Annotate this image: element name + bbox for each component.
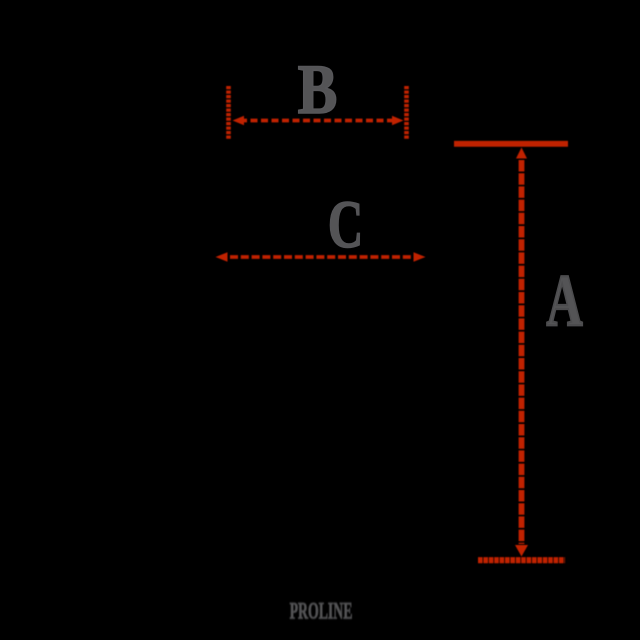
dimension line C xyxy=(230,255,411,259)
dimension line A (vertical) xyxy=(519,160,525,544)
extension tick right (B) xyxy=(404,86,409,140)
svg-text:B: B xyxy=(298,51,338,129)
bottom reference bar (A) xyxy=(478,557,565,563)
svg-text:PROLINE: PROLINE xyxy=(290,599,353,624)
arrowhead A top xyxy=(516,148,527,159)
arrowhead C left xyxy=(216,252,228,262)
top reference bar (A) xyxy=(454,141,568,147)
arrowhead A bottom xyxy=(515,545,528,557)
svg-text:A: A xyxy=(546,260,583,342)
arrowhead B right xyxy=(392,116,404,126)
extension tick left (B) xyxy=(226,86,231,140)
arrowhead B left xyxy=(233,116,245,126)
dimension line B xyxy=(240,119,396,123)
arrowhead C right xyxy=(414,252,426,262)
svg-text:C: C xyxy=(328,186,363,262)
